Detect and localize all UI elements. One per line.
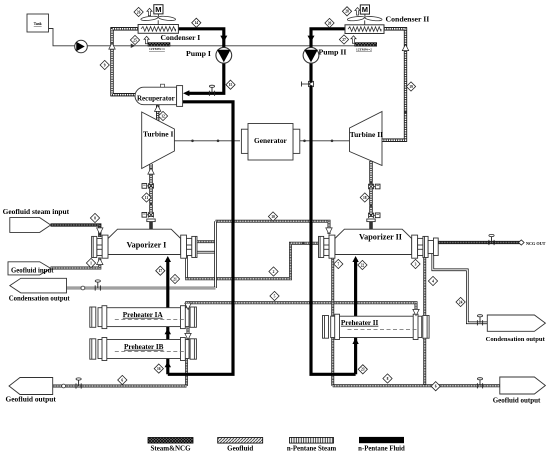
svg-text:12TMW=1: 12TMW=1 xyxy=(149,47,165,51)
svg-text:Tank: Tank xyxy=(34,22,42,26)
svg-text:3: 3 xyxy=(415,262,417,266)
svg-text:Recuperator: Recuperator xyxy=(137,94,175,102)
svg-text:Geofluid input: Geofluid input xyxy=(11,267,54,274)
svg-text:Vaporizer I: Vaporizer I xyxy=(127,240,167,249)
svg-text:NCG OUT: NCG OUT xyxy=(526,241,546,246)
svg-text:Condenser I: Condenser I xyxy=(161,33,201,42)
svg-text:11: 11 xyxy=(145,196,149,200)
svg-text:Condenser II: Condenser II xyxy=(386,14,430,23)
svg-text:5: 5 xyxy=(274,294,276,298)
svg-text:15: 15 xyxy=(229,83,233,87)
svg-text:14: 14 xyxy=(195,21,199,25)
svg-text:Geofluid output: Geofluid output xyxy=(6,395,57,404)
svg-text:10: 10 xyxy=(271,215,275,219)
svg-text:6: 6 xyxy=(121,378,123,382)
svg-text:25: 25 xyxy=(133,38,137,42)
svg-text:Turbine I: Turbine I xyxy=(143,130,173,139)
svg-text:12: 12 xyxy=(161,114,165,118)
svg-text:Turbine II: Turbine II xyxy=(350,130,383,139)
svg-text:Vaporizer II: Vaporizer II xyxy=(359,232,402,241)
svg-text:18: 18 xyxy=(363,196,367,200)
svg-text:8: 8 xyxy=(387,377,389,381)
svg-text:n-Pentane Steam: n-Pentane Steam xyxy=(287,446,337,453)
svg-text:Preheater IB: Preheater IB xyxy=(124,343,164,351)
svg-text:20: 20 xyxy=(328,21,332,25)
svg-text:23: 23 xyxy=(361,368,365,372)
svg-text:4: 4 xyxy=(432,279,434,283)
svg-text:M: M xyxy=(155,5,161,14)
svg-text:7: 7 xyxy=(337,262,339,266)
svg-text:1: 1 xyxy=(90,261,92,265)
svg-text:26: 26 xyxy=(137,10,141,14)
svg-text:Geofluid output: Geofluid output xyxy=(493,396,541,404)
svg-text:Pump I: Pump I xyxy=(186,49,211,58)
svg-text:19: 19 xyxy=(409,85,413,89)
svg-text:17: 17 xyxy=(159,269,163,273)
svg-text:28: 28 xyxy=(345,10,349,14)
svg-text:Condensation output: Condensation output xyxy=(486,336,546,343)
svg-text:21: 21 xyxy=(173,277,177,281)
svg-text:16: 16 xyxy=(157,367,161,371)
svg-text:Preheater II: Preheater II xyxy=(341,319,379,327)
svg-text:12TMW=2: 12TMW=2 xyxy=(356,48,372,52)
svg-text:27: 27 xyxy=(342,38,346,42)
svg-text:2: 2 xyxy=(273,270,275,274)
svg-text:M: M xyxy=(362,5,368,14)
svg-text:n-Pentane Fluid: n-Pentane Fluid xyxy=(358,446,405,453)
svg-text:6: 6 xyxy=(435,385,437,389)
svg-text:Condensation output: Condensation output xyxy=(9,295,71,302)
svg-text:24: 24 xyxy=(459,300,463,304)
svg-text:Pump II: Pump II xyxy=(319,48,347,57)
svg-text:9: 9 xyxy=(104,63,106,67)
svg-text:Preheater IA: Preheater IA xyxy=(123,311,164,319)
svg-text:Geofluid: Geofluid xyxy=(227,445,253,453)
svg-text:Geofluid steam input: Geofluid steam input xyxy=(3,207,70,216)
svg-text:22: 22 xyxy=(361,263,365,267)
svg-text:Steam&NCG: Steam&NCG xyxy=(150,445,191,453)
svg-text:Generator: Generator xyxy=(254,136,288,145)
svg-text:8: 8 xyxy=(94,216,96,220)
